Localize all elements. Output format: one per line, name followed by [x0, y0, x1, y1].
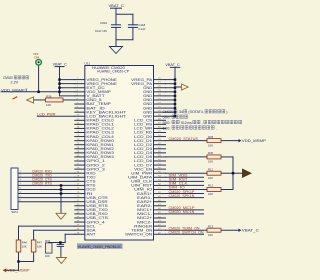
svg-text:VBAT_C: VBAT_C: [53, 63, 68, 67]
svg-text:10uF 16V: 10uF 16V: [95, 29, 107, 33]
svg-text:CM020: CM020: [163, 110, 174, 114]
svg-text:(SOTAT4,: (SOTAT4,: [188, 110, 204, 114]
svg-text:CM020_SWITCH_ON: CM020_SWITCH_ON: [169, 230, 205, 234]
svg-text:10K: 10K: [208, 160, 213, 164]
svg-text:VBAT_C: VBAT_C: [165, 63, 180, 67]
svg-text:512ms: 512ms: [181, 121, 192, 125]
svg-text:10K: 10K: [208, 176, 213, 180]
svg-text:,: ,: [201, 121, 202, 125]
svg-text:10K: 10K: [22, 244, 27, 248]
svg-text:10K: 10K: [45, 254, 50, 258]
svg-text:R12: R12: [208, 184, 214, 188]
svg-text:VBAT_C: VBAT_C: [242, 229, 259, 233]
svg-text:R36: R36: [208, 135, 214, 139]
svg-text:500:: 500:: [163, 126, 171, 130]
svg-text:HUAWEI_CM020_PINOBLOC: HUAWEI_CM020_PINOBLOC: [78, 245, 122, 249]
svg-text:CM020_SPK1N: CM020_SPK1N: [169, 194, 196, 198]
svg-text:CM020_STATUS: CM020_STATUS: [169, 137, 199, 141]
svg-text:10K: 10K: [208, 233, 213, 237]
svg-text:VDD_MSMP: VDD_MSMP: [7, 269, 30, 273]
svg-text:10K: 10K: [37, 244, 42, 248]
svg-text:SIP4: SIP4: [11, 210, 18, 214]
svg-text:SP4: SP4: [34, 56, 40, 60]
svg-text:500:: 500:: [163, 121, 171, 125]
svg-text:U31: U31: [85, 62, 91, 66]
svg-text:10K: 10K: [208, 192, 213, 196]
svg-text:10K: 10K: [208, 143, 213, 147]
svg-text:HUAWEI_CM020-CP: HUAWEI_CM020-CP: [97, 69, 130, 73]
svg-text:R30: R30: [208, 151, 214, 155]
svg-text:2.2V: 2.2V: [11, 81, 19, 85]
svg-text:ANT: ANT: [86, 232, 95, 236]
svg-text:C810: C810: [100, 21, 108, 25]
svg-text:CM020_MIC1N: CM020_MIC1N: [169, 210, 196, 214]
svg-text:VDD_MSMP: VDD_MSMP: [242, 139, 267, 143]
svg-text:.: .: [216, 126, 217, 130]
svg-text:R11: R11: [208, 167, 213, 171]
svg-text:500:: 500:: [163, 116, 171, 120]
svg-text:LCD_PWR: LCD_PWR: [37, 113, 56, 117]
svg-text:VDD_MSMP: VDD_MSMP: [1, 88, 26, 92]
svg-text:R13: R13: [208, 224, 214, 228]
svg-text:SWITCH_ON: SWITCH_ON: [125, 232, 153, 236]
svg-text:34: 34: [179, 110, 184, 114]
svg-text:VBAT_C: VBAT_C: [109, 3, 124, 8]
svg-text:CM020_RTS: CM020_RTS: [32, 182, 53, 186]
svg-text:R34: R34: [45, 239, 51, 243]
svg-text:CM020: CM020: [3, 76, 13, 80]
svg-text:10K: 10K: [46, 103, 51, 107]
svg-text:0.1uF: 0.1uF: [138, 27, 145, 31]
svg-text:R38: R38: [46, 94, 52, 98]
